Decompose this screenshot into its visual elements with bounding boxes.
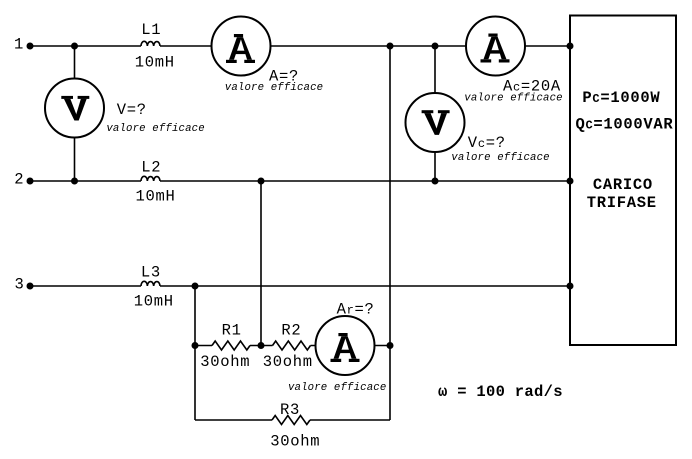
voltmeter Vc body	[406, 93, 465, 152]
wire voltmeter Vc branch	[434, 46, 436, 181]
resistor R2	[273, 341, 311, 350]
ammeter Ac body	[466, 17, 525, 76]
svg-text:ω = 100 rad/s: ω = 100 rad/s	[438, 383, 563, 401]
junction phase2 at load box	[567, 178, 574, 185]
svg-text:10mH: 10mH	[135, 53, 175, 71]
junction R1 left node	[192, 342, 199, 349]
svg-text:10mH: 10mH	[135, 188, 175, 206]
junction phase1 / V branch	[71, 43, 78, 50]
junction phase1 at load box	[567, 43, 574, 50]
ammeter A body	[212, 17, 271, 76]
svg-text:30ohm: 30ohm	[200, 353, 250, 371]
wire phase 1 right segment	[160, 45, 570, 47]
junction phase1 / long vertical	[387, 43, 394, 50]
inductor L2	[141, 176, 160, 181]
svg-text:QC=1000VAR: QC=1000VAR	[576, 116, 674, 134]
wire phase 3 right segment	[160, 285, 570, 287]
wire vertical from phase 2 to R1-R2 node	[260, 181, 262, 346]
junction phase3 at load box	[567, 283, 574, 290]
wire R1 left lead	[195, 345, 212, 347]
svg-text:valore efficace: valore efficace	[464, 92, 562, 104]
junction phase2 / mid vertical	[258, 178, 265, 185]
svg-text:valore efficace: valore efficace	[106, 123, 204, 135]
resistor R1	[212, 341, 250, 350]
svg-text:1: 1	[14, 35, 24, 53]
wire phase 1 left segment	[30, 45, 141, 47]
svg-text:V=?: V=?	[117, 101, 147, 119]
wire phase 3 left segment	[30, 285, 141, 287]
svg-text:L2: L2	[141, 159, 161, 177]
junction R1-R2 node	[258, 342, 265, 349]
svg-text:valore efficace: valore efficace	[225, 82, 323, 94]
svg-text:Ar=?: Ar=?	[337, 300, 375, 318]
junction phase1 / Vc branch	[432, 43, 439, 50]
inductor L3	[141, 281, 160, 286]
wire phase 2 left segment	[30, 180, 141, 182]
svg-text:Vc=?: Vc=?	[468, 134, 506, 152]
wire voltmeter V branch	[74, 46, 76, 181]
junction phase3 / measuring network	[192, 283, 199, 290]
terminal node 1	[27, 43, 34, 50]
svg-text:PC=1000W: PC=1000W	[582, 89, 660, 107]
wire phase 2 right segment	[160, 180, 570, 182]
svg-text:10mH: 10mH	[134, 293, 174, 311]
svg-text:L1: L1	[141, 21, 161, 39]
terminal node 3	[27, 283, 34, 290]
svg-text:R1: R1	[222, 322, 242, 340]
svg-text:valore efficace: valore efficace	[288, 382, 386, 394]
wire R2 to ammeter Ar	[311, 345, 391, 347]
wire R1 to R2	[250, 345, 273, 347]
svg-text:valore efficace: valore efficace	[451, 152, 549, 164]
svg-text:R2: R2	[281, 322, 301, 340]
junction Ar output node	[387, 342, 394, 349]
svg-text:2: 2	[14, 170, 24, 188]
svg-text:30ohm: 30ohm	[263, 353, 313, 371]
svg-text:3: 3	[14, 275, 24, 293]
voltmeter V body	[45, 79, 104, 138]
wire R3 bottom right lead	[310, 419, 390, 421]
wire R3 bottom left lead	[195, 419, 272, 421]
resistor R3	[272, 416, 310, 425]
junction phase2 / Vc branch	[432, 178, 439, 185]
ammeter Ar body	[316, 316, 375, 375]
svg-text:L3: L3	[141, 264, 161, 282]
svg-text:30ohm: 30ohm	[270, 432, 320, 450]
svg-text:R3: R3	[280, 401, 300, 419]
load box CARICO TRIFASE	[570, 16, 676, 346]
inductor L1	[141, 41, 160, 46]
wire vertical from phase 3 to measuring network	[194, 286, 196, 420]
svg-text:TRIFASE: TRIFASE	[587, 194, 657, 212]
terminal node 2	[27, 178, 34, 185]
wire vertical from phase 1 to measuring network	[389, 46, 391, 420]
junction phase2 / V branch	[71, 178, 78, 185]
svg-text:CARICO: CARICO	[593, 176, 653, 194]
